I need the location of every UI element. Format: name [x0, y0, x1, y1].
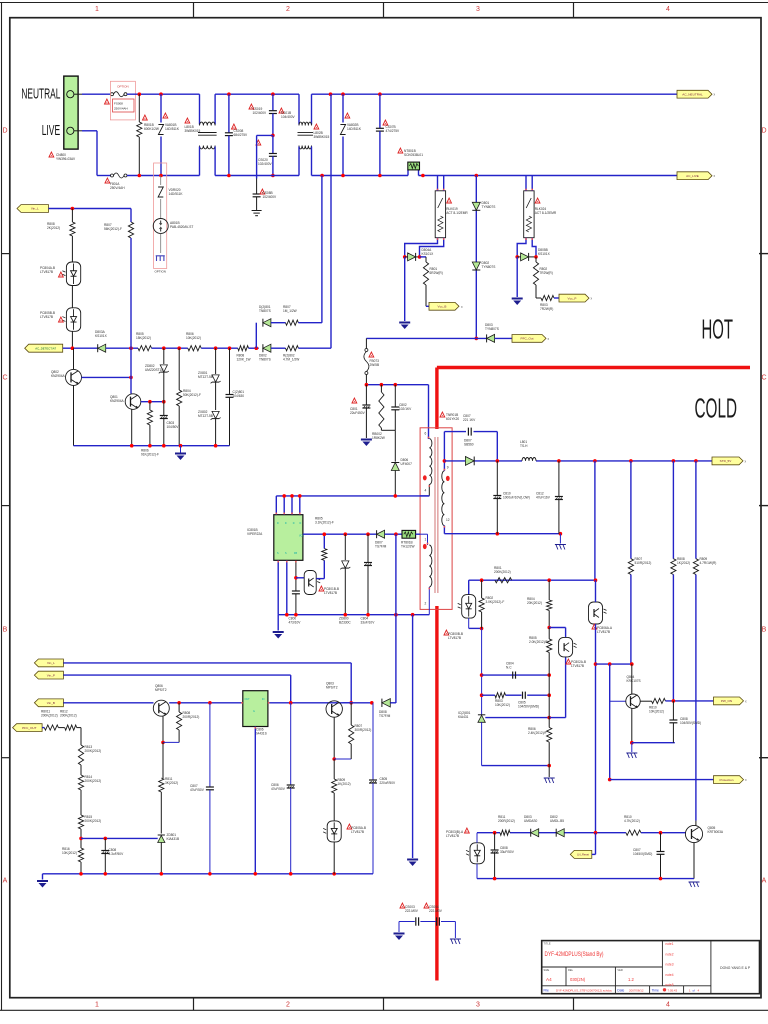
label R802 [540, 267, 553, 275]
svg-text:1000uF/10V(LOW): 1000uF/10V(LOW) [503, 496, 530, 500]
svg-text:91K(2012)-F: 91K(2012)-F [141, 453, 159, 457]
connector CN800 live pin circle [67, 127, 74, 134]
label C802 [399, 403, 412, 411]
svg-text:1M_1/2W: 1M_1/2W [283, 309, 297, 313]
wire PFC rail [366, 337, 487, 339]
svg-text:50K(2012)-F: 50K(2012)-F [183, 393, 201, 397]
label R810C [649, 706, 664, 714]
inductor L801 output [522, 457, 536, 460]
resistor R801 [423, 262, 428, 285]
svg-text:Time: Time [652, 989, 659, 993]
wire PC805 to detect row [71, 331, 73, 348]
label PC802A-B [566, 659, 586, 668]
svg-text:AC_DETECT/AT: AC_DETECT/AT [35, 346, 56, 350]
label C804aux [361, 617, 376, 625]
wire choke L802B neutral dip right [311, 94, 313, 124]
resistor R807B [286, 320, 299, 325]
resistor R808D [671, 461, 676, 701]
junction fbdiv-C804 [480, 673, 484, 677]
svg-text:PW_ON: PW_ON [721, 699, 732, 703]
thermistor RT801B [402, 530, 416, 538]
opto-coupler PC805B-B photodiode [62, 308, 80, 332]
label D808 [379, 710, 391, 718]
junction detect-ZD802 [162, 346, 166, 350]
capacitor CS08B [253, 194, 261, 210]
junction PC806-Q804row [594, 662, 598, 666]
svg-text:TYN807S: TYN807S [482, 205, 496, 209]
svg-text:A4: A4 [546, 977, 552, 982]
power ground relay2 [512, 298, 523, 306]
label R806C [141, 449, 159, 457]
junction gnd-KA431 [254, 872, 258, 876]
wire R802 to R803 [536, 285, 541, 298]
label VDR020 [169, 188, 184, 196]
label D804A [422, 248, 435, 256]
label R8002 [372, 432, 385, 440]
capacitor CS004 [437, 917, 440, 925]
svg-text:note1: note1 [666, 942, 674, 946]
junction rail-ZX [214, 444, 218, 448]
opto-coupler PC803B-A diode [466, 843, 485, 864]
wire KA431 out row [268, 702, 351, 704]
junction R804C-opto [547, 626, 551, 630]
junction PC800-R802C [480, 627, 484, 631]
svg-text:1R8K2W: 1R8K2W [372, 436, 385, 440]
junction secgnd-end [559, 532, 563, 536]
opto-coupler PC801B-B transistor [304, 571, 320, 595]
svg-text:10K(2012): 10K(2012) [186, 336, 201, 340]
svg-text:note2: note2 [666, 952, 674, 956]
junction D804A anode [403, 255, 407, 259]
junction gnd-R816 [79, 872, 83, 876]
wire PC803 top [476, 833, 478, 843]
title block sheet cell [689, 988, 700, 992]
net arrow Protection [714, 776, 744, 784]
junction CS020-live [271, 174, 275, 178]
label NT801B [398, 148, 423, 157]
svg-text:102/400V: 102/400V [253, 111, 268, 115]
transformer polarity dot primary [423, 475, 427, 480]
cold ground fb [544, 778, 555, 783]
label D802C [550, 815, 564, 823]
junction fb-R802C [480, 578, 484, 582]
svg-text:6: 6 [425, 432, 427, 436]
junction live-detect [320, 174, 324, 178]
net arrow Vin_B [34, 699, 63, 707]
svg-text:UMZ20ST1G: UMZ20ST1G [145, 368, 164, 372]
wire tap row [81, 837, 158, 839]
wire ycap right stub [454, 922, 456, 939]
svg-text:10K(2012): 10K(2012) [495, 703, 510, 707]
wire source gnd stub [277, 615, 279, 631]
resistor R807 vertical [128, 209, 133, 349]
wire choke L801B live rise left [199, 147, 201, 176]
wire Vin_P rail [63, 675, 290, 703]
svg-text:104/400V: 104/400V [281, 115, 296, 119]
svg-text:ACT 8-1/2EMR: ACT 8-1/2EMR [446, 211, 468, 215]
label CS07B [383, 120, 400, 133]
svg-text:D: D [277, 522, 279, 525]
cold ground LN [689, 882, 700, 887]
resistor R804C [547, 580, 552, 627]
wire fb drop [594, 461, 596, 580]
wire choke L802B neutral dip left [298, 94, 300, 124]
label D807aux [375, 541, 387, 549]
resistor R805 [138, 346, 152, 351]
svg-text:3: 3 [476, 1002, 480, 1009]
label Q805 [708, 826, 724, 834]
svg-text:200R(2012): 200R(2012) [183, 715, 200, 719]
transformer polarity dot secondary [446, 476, 450, 481]
label D803C [524, 815, 538, 823]
connector CN800 body [64, 76, 78, 149]
wire detect row F [271, 347, 286, 349]
label R804C [527, 597, 542, 605]
opto-coupler PC800B-B diode [458, 595, 476, 619]
junction emitter-R806 [148, 400, 152, 404]
wire R803C row [482, 694, 550, 696]
resistor R810D [626, 830, 641, 835]
capacitor CS008 [225, 94, 233, 175]
capacitor C801 bulk [362, 385, 370, 438]
label CN800 [49, 152, 76, 161]
label R804 [183, 389, 201, 397]
label C801B [233, 390, 245, 398]
svg-text:D: D [2, 128, 7, 135]
svg-text:510R(2012): 510R(2012) [635, 561, 652, 565]
label CS019 [249, 104, 267, 115]
label ZX802 [198, 410, 213, 418]
svg-text:14D/511K: 14D/511K [347, 127, 362, 131]
label D803 [485, 323, 499, 331]
label R801C [494, 566, 511, 574]
wire varistor-arrestor [160, 199, 162, 218]
transformer pin2 [425, 602, 427, 606]
svg-text:TS7F/M: TS7F/M [379, 714, 391, 718]
svg-text:LTV817B: LTV817B [40, 315, 53, 319]
relay RLK024 top stubs [526, 176, 532, 191]
isolation barrier vertical upper [435, 368, 438, 430]
svg-text:220uF/50V: 220uF/50V [380, 781, 396, 785]
junction gnd-C807B [208, 872, 212, 876]
ground arrestor [156, 256, 165, 261]
svg-text:104/630: 104/630 [233, 394, 245, 398]
zener ZD802 [159, 348, 169, 402]
thermistor NT801B stubs [408, 170, 419, 176]
zener ZX801 [211, 348, 221, 410]
transistor Q806 [153, 700, 169, 716]
junction drain pin3 [290, 494, 294, 498]
junction fbdiv-R803C [480, 693, 484, 697]
svg-text:3.0K(2012)-F: 3.0K(2012)-F [486, 600, 505, 604]
wire live rail segment C [215, 175, 299, 177]
diode D802C [556, 829, 564, 837]
svg-text:221 1KV: 221 1KV [463, 418, 476, 422]
junction feed-prot [608, 662, 612, 666]
svg-text:note3: note3 [666, 963, 674, 967]
resistor R802B [286, 346, 299, 351]
net arrow Vcc_P [559, 294, 589, 302]
label R813 [85, 745, 102, 753]
svg-text:3K(2012): 3K(2012) [165, 781, 178, 785]
wire R805B top [323, 534, 325, 548]
wire neutral rail segment B [127, 93, 200, 95]
svg-text:KRT5003A: KRT5003A [708, 830, 724, 834]
junction detect-sense [254, 346, 258, 350]
power ground standby [37, 880, 48, 888]
svg-text:ACT 8-1/2EMR: ACT 8-1/2EMR [535, 211, 557, 215]
wire R816-gnd [80, 862, 82, 874]
wire PC806 bottom [595, 624, 597, 833]
IC IC801B VIPER22A body [274, 515, 303, 561]
svg-text:NEUTRAL: NEUTRAL [21, 85, 60, 102]
wire live to fuse F801A [97, 175, 111, 177]
transformer primary winding [429, 439, 432, 485]
svg-text:KIA431B: KIA431B [167, 837, 180, 841]
svg-text:OUT: OUT [245, 698, 251, 701]
fuse F801A [111, 173, 128, 178]
wire R809B-opto [333, 793, 335, 821]
junction tap-C808B [104, 837, 108, 841]
wire live drop [96, 131, 98, 176]
label R816 [62, 847, 77, 855]
svg-text:7:05:43: 7:05:43 [668, 988, 678, 992]
power ground ycap [394, 933, 405, 941]
svg-text:DYF-42MDPLUS_STBY(20070612).sc: DYF-42MDPLUS_STBY(20070612).schdoc [556, 988, 613, 992]
capacitor C804 NC [513, 672, 516, 679]
capacitor C801B [226, 348, 234, 446]
label R808B2 [183, 711, 200, 719]
svg-text:IN: IN [262, 698, 265, 701]
junction live-NTC [421, 174, 425, 178]
svg-text:1.2: 1.2 [628, 977, 634, 982]
relay RLK024 body [524, 191, 534, 238]
diode D805B [517, 253, 536, 261]
junction VinL-row [349, 701, 353, 705]
power ground detect rail [175, 453, 186, 461]
label FB073 [369, 352, 379, 367]
label D805B [538, 248, 551, 256]
svg-text:Vin_L: Vin_L [47, 661, 55, 665]
wire ref to opto [549, 657, 565, 718]
label R807B [283, 305, 297, 313]
svg-text:3: 3 [476, 6, 480, 13]
svg-text:D: D [300, 522, 302, 525]
svg-text:VCC: VCC [299, 535, 304, 538]
wire ycap row [399, 921, 455, 923]
varistor VA802B [340, 94, 345, 175]
wire Q806 emitter [162, 716, 164, 742]
wire detect row C [152, 347, 188, 349]
svg-text:473/10V: 473/10V [289, 621, 302, 625]
junction detect-ZX801 [214, 346, 218, 350]
junction detect-R804 [177, 346, 181, 350]
svg-text:DONG YANG E & P: DONG YANG E & P [720, 966, 751, 970]
label R808D [677, 557, 690, 565]
junction vcc-R805B [323, 532, 327, 536]
wire choke L801B neutral dip left [199, 94, 201, 124]
svg-text:104/50V(SMD): 104/50V(SMD) [518, 705, 539, 709]
label CS008 [232, 124, 249, 137]
svg-text:104/50V: 104/50V [167, 425, 180, 429]
svg-text:15K(2012): 15K(2012) [136, 336, 151, 340]
diode D803A [98, 344, 106, 352]
svg-text:B: B [762, 627, 767, 634]
wire R805C-C804row [548, 675, 550, 718]
svg-text:OPTION: OPTION [154, 270, 166, 274]
wire aux bottom [428, 587, 430, 615]
wire VA801-arrestor [160, 176, 162, 186]
junction out-R808D [672, 459, 676, 463]
svg-text:TH12/2W: TH12/2W [401, 545, 414, 549]
wire Q803 out [342, 702, 371, 704]
title block TITLE text [544, 942, 604, 958]
isolation barrier vertical lower [435, 606, 438, 981]
junction live-CS07B [378, 174, 382, 178]
spark gap A801B [153, 219, 168, 234]
junction src hotgnd [411, 613, 415, 617]
junction src C804 [366, 613, 370, 617]
resistor R805C [547, 628, 552, 676]
wire R815-R816 [80, 829, 82, 848]
wire D808 column [395, 534, 397, 703]
connector CN800 neutral pin circle [67, 91, 74, 98]
label C807B [190, 784, 205, 792]
svg-text:1: 1 [95, 1002, 99, 1009]
junction out-R809D [694, 459, 698, 463]
label R806h [186, 332, 201, 340]
resistor R808 [70, 209, 75, 263]
junction rail-Q801 [130, 444, 134, 448]
svg-text:47uF/50V: 47uF/50V [271, 787, 286, 791]
junction rail-R806C [148, 444, 152, 448]
wire VCC rail [303, 533, 377, 535]
label Q801 [110, 395, 125, 403]
capacitor C803 [160, 402, 168, 446]
wire detect bottom rail [74, 445, 230, 447]
wire Y-cap midpoint to earth [257, 135, 273, 193]
wire R802C down [481, 628, 483, 715]
svg-text:4: 4 [425, 489, 427, 493]
label CS020 [256, 140, 273, 166]
earth ground below CS08B [252, 211, 262, 216]
transistor Q804 [626, 694, 640, 708]
svg-text:7R2W(R): 7R2W(R) [540, 271, 553, 275]
label Q802 [51, 370, 66, 378]
junction Q804 emitter [630, 741, 634, 745]
wire PC803 bottom [476, 864, 478, 879]
inductor L802B core [298, 133, 314, 136]
svg-text:102/400V: 102/400V [263, 195, 278, 199]
wire sense row [271, 322, 286, 324]
svg-text:56K(2012)-F: 56K(2012)-F [104, 227, 122, 231]
relay RLK019 body [435, 191, 445, 238]
wire ZD801-gnd [160, 843, 162, 874]
wire Q802 collector [73, 348, 75, 369]
svg-text:030(2N): 030(2N) [570, 977, 586, 982]
svg-text:KRC107S: KRC107S [627, 679, 641, 683]
title block rel cell [568, 968, 586, 982]
svg-text:A: A [3, 878, 8, 885]
resistor R816 [78, 848, 83, 862]
svg-text:9: 9 [447, 466, 449, 470]
svg-text:14D/511K: 14D/511K [169, 192, 184, 196]
svg-text:601YK20: 601YK20 [446, 417, 459, 421]
wire emitter gnd stub [631, 743, 633, 752]
wire emitter row [163, 741, 179, 743]
capacitor CS003 [416, 917, 419, 925]
svg-text:1045/X(SMD): 1045/X(SMD) [633, 852, 652, 856]
transformer aux winding [429, 545, 432, 587]
label R807 [104, 223, 122, 231]
label R809B [338, 778, 351, 786]
wire relay RLK024 out left [517, 238, 526, 257]
wire neutral stub [74, 93, 82, 95]
label R808B [237, 354, 251, 362]
wire detect row E [249, 347, 259, 349]
transistor Q803 [326, 701, 342, 717]
svg-text:2: 2 [286, 1002, 290, 1009]
capacitor C812 [555, 461, 563, 534]
label ZX801 [198, 371, 213, 379]
wire Q802 base [82, 376, 132, 378]
svg-text:KS101X: KS101X [538, 252, 551, 256]
junction Q802 base [129, 376, 133, 380]
junction bulk-C802 [394, 383, 398, 387]
junction vcc-ZD800 [344, 532, 348, 536]
svg-text:250V/4AH: 250V/4AH [110, 186, 125, 190]
capacitor CS07B [376, 94, 384, 175]
label R802C [486, 596, 505, 604]
power ground C801 [361, 439, 372, 447]
svg-text:474/275V: 474/275V [386, 129, 401, 133]
wire D804A to ground [404, 257, 406, 321]
svg-text:600K1/2W: 600K1/2W [144, 127, 159, 131]
label C804NC [506, 662, 514, 670]
wire KIA431 bottom [481, 722, 483, 765]
label PC806A-A [592, 624, 613, 634]
svg-text:22uF450V: 22uF450V [350, 411, 366, 415]
resistor R805B [322, 549, 327, 561]
label HOT [702, 314, 734, 345]
option box around fuse FS008 [110, 81, 135, 120]
wire VIPER source pins [278, 560, 287, 614]
label R801B [143, 115, 159, 131]
junction fb-PC806 [594, 578, 598, 582]
label RLK019 [446, 198, 468, 215]
wire protection row [610, 779, 714, 781]
label C803 [167, 421, 180, 429]
junction out-fb [593, 459, 597, 463]
svg-text:6R2W(R): 6R2W(R) [430, 271, 443, 275]
wire Q801 column [130, 348, 132, 394]
label R802B [283, 354, 299, 362]
junction secondary-rail [443, 459, 447, 463]
svg-text:2K(2012): 2K(2012) [47, 226, 60, 230]
wire LN gnd rail [477, 878, 694, 880]
svg-text:10K(2012): 10K(2012) [649, 710, 664, 714]
svg-text:COLD: COLD [695, 393, 738, 424]
junction fbbot-R806C2 [547, 764, 551, 768]
label F801A [105, 178, 125, 190]
wire output rail [444, 460, 712, 462]
wire live rail segment E [419, 175, 678, 177]
net arrow AC_DETECT [25, 344, 63, 352]
wire ref row [485, 717, 549, 719]
junction base-C807B [208, 701, 212, 705]
junction base-R808B2 [177, 701, 181, 705]
wire sense branch up [255, 323, 257, 349]
